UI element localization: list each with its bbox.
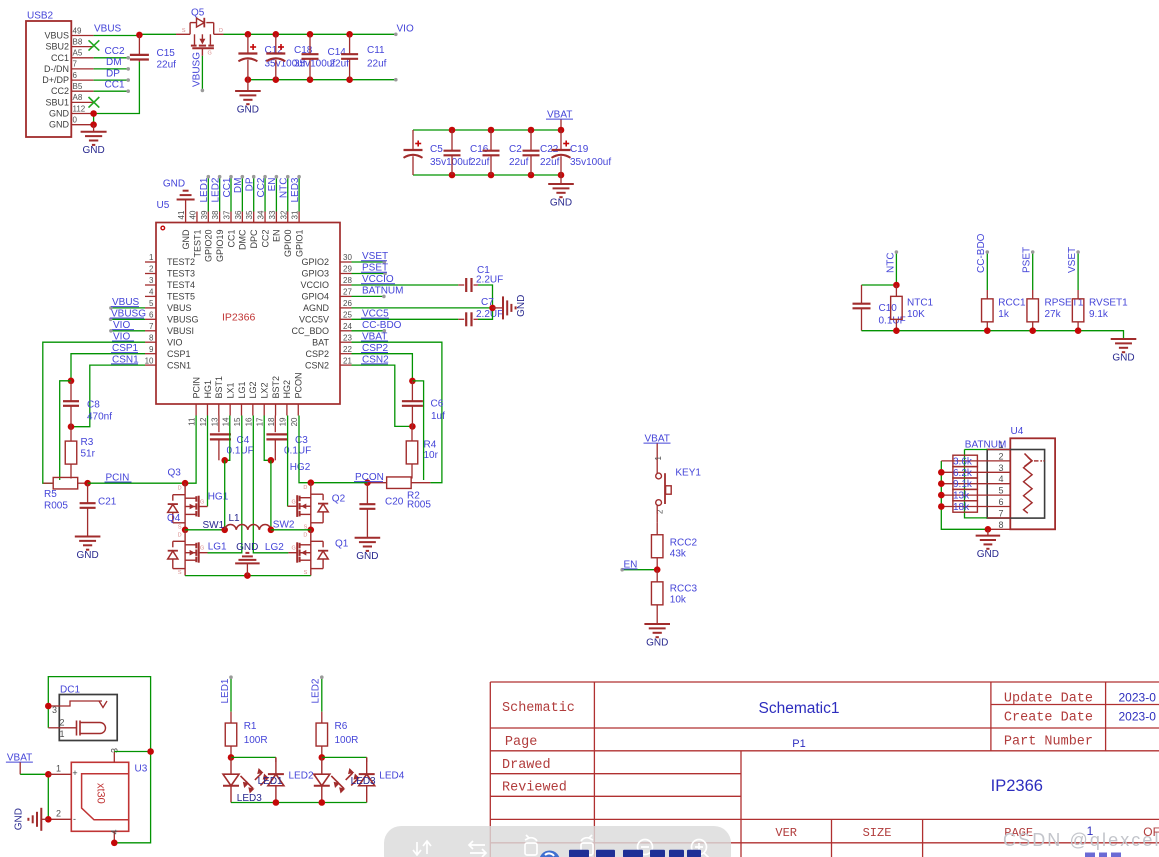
svg-text:R4: R4 bbox=[424, 440, 437, 451]
svg-text:21: 21 bbox=[343, 356, 352, 365]
svg-text:CC1: CC1 bbox=[105, 80, 125, 91]
svg-text:1: 1 bbox=[654, 456, 663, 461]
junction pin0 bbox=[90, 121, 97, 128]
connector U4 bbox=[987, 426, 1055, 529]
wire PCIN to Q3 drain bbox=[88, 482, 186, 484]
wire CC-BDO net bbox=[986, 252, 988, 290]
svg-text:RVSET1: RVSET1 bbox=[1089, 298, 1128, 309]
ground GND below C19 bbox=[548, 175, 574, 209]
svg-text:22uf: 22uf bbox=[509, 157, 529, 168]
svg-text:U3: U3 bbox=[135, 764, 148, 775]
capacitor C21 bbox=[87, 483, 89, 503]
wire LX2 pin17 to C3 bottom junction bbox=[264, 416, 271, 461]
svg-text:VBUS: VBUS bbox=[44, 31, 69, 41]
resistor 18k bbox=[941, 506, 1010, 508]
junction NTC/C10 bbox=[893, 282, 900, 289]
svg-text:SW2: SW2 bbox=[273, 519, 295, 530]
wire bridge source rail bbox=[185, 575, 311, 577]
svg-text:A5: A5 bbox=[73, 49, 83, 58]
wire net EN at IC top pin 33 bbox=[275, 177, 277, 212]
svg-text:24: 24 bbox=[343, 322, 352, 331]
svg-text:2: 2 bbox=[149, 265, 154, 274]
wire CSP2 from pin22 to C6 top bbox=[352, 354, 413, 381]
svg-text:KEY1: KEY1 bbox=[675, 468, 701, 479]
resistor 6.2k bbox=[941, 471, 1010, 473]
svg-text:GND: GND bbox=[181, 229, 191, 250]
junction VBUS/C15 bbox=[136, 32, 143, 39]
svg-text:R6: R6 bbox=[335, 721, 348, 732]
resistor NTC1 bbox=[895, 285, 897, 296]
svg-text:BATNUM: BATNUM bbox=[965, 440, 1006, 451]
svg-text:12: 12 bbox=[199, 417, 208, 426]
svg-text:CC-BDO: CC-BDO bbox=[976, 233, 987, 273]
junction ground tap bbox=[244, 572, 251, 579]
svg-text:19: 19 bbox=[278, 417, 287, 426]
wire VSET net bbox=[1077, 252, 1079, 290]
svg-text:GND: GND bbox=[237, 105, 259, 116]
svg-text:G: G bbox=[208, 51, 212, 57]
svg-text:LG2: LG2 bbox=[248, 381, 258, 398]
svg-text:7: 7 bbox=[149, 322, 154, 331]
wire C21 to ground bbox=[87, 520, 89, 537]
wire LX1 pin14 to C4 bottom junction bbox=[225, 416, 230, 461]
svg-text:GND: GND bbox=[1112, 353, 1134, 364]
capacitor C2 bbox=[490, 130, 492, 151]
svg-text:CC_BDO: CC_BDO bbox=[291, 326, 329, 336]
svg-text:DP: DP bbox=[106, 68, 120, 79]
wire PSET net bbox=[1032, 252, 1034, 290]
svg-text:13k: 13k bbox=[953, 491, 970, 502]
IC bottom pins 11-20 bbox=[188, 372, 304, 426]
svg-text:43k: 43k bbox=[670, 549, 687, 560]
capacitor C10 bbox=[861, 285, 863, 304]
wire HG2 pin19 to Q2 gate bbox=[287, 416, 289, 507]
svg-text:Q4: Q4 bbox=[167, 513, 181, 524]
capacitor C16 bbox=[451, 130, 453, 151]
capacitor C3 bbox=[266, 434, 311, 460]
resistor RCC2 bbox=[656, 523, 658, 535]
junction top rail x=247.9 bbox=[245, 31, 252, 38]
svg-text:Create Date: Create Date bbox=[1004, 711, 1093, 726]
svg-text:G: G bbox=[292, 546, 296, 552]
svg-text:GND: GND bbox=[236, 542, 258, 553]
svg-text:Q1: Q1 bbox=[335, 538, 349, 549]
svg-text:D+/DP: D+/DP bbox=[42, 75, 69, 85]
svg-text:VCC5V: VCC5V bbox=[299, 315, 329, 325]
svg-text:10r: 10r bbox=[424, 450, 439, 461]
svg-text:LG1: LG1 bbox=[237, 381, 247, 398]
svg-text:2: 2 bbox=[59, 718, 64, 728]
svg-text:CC2: CC2 bbox=[105, 46, 125, 57]
svg-text:C10: C10 bbox=[879, 303, 898, 314]
svg-text:13: 13 bbox=[210, 417, 219, 426]
rheostat symbol inside U4 bbox=[1024, 454, 1045, 514]
junction divider x=941 row 3 bbox=[938, 469, 945, 476]
svg-text:L1: L1 bbox=[229, 513, 241, 524]
svg-text:U5: U5 bbox=[157, 200, 170, 211]
svg-text:6: 6 bbox=[998, 497, 1003, 507]
svg-text:R005: R005 bbox=[407, 500, 431, 511]
wire top rail cap bank 2 bbox=[413, 129, 561, 131]
wire VBAT from pin23 to R2 bbox=[352, 342, 442, 483]
junction bottom rail x=310.0 bbox=[307, 76, 314, 83]
svg-text:GND: GND bbox=[82, 145, 104, 156]
junction SW1 bbox=[221, 527, 228, 534]
svg-text:DMC: DMC bbox=[238, 229, 248, 250]
junction SW2/Q1 drain bbox=[308, 527, 315, 534]
junction U3 pin1 bbox=[45, 771, 52, 778]
wire C6 top to R2 box bbox=[412, 381, 423, 480]
resistor R6 bbox=[321, 712, 323, 723]
svg-text:DP: DP bbox=[245, 177, 256, 191]
svg-text:GPIO0: GPIO0 bbox=[283, 230, 293, 258]
resistor 3.6k bbox=[941, 460, 1010, 462]
svg-text:BATNUM: BATNUM bbox=[362, 286, 403, 297]
svg-text:GND: GND bbox=[356, 551, 378, 562]
svg-text:DM: DM bbox=[106, 57, 122, 68]
wire VBAT to U3 pin1 bbox=[20, 773, 48, 775]
ground GND below USB2 bbox=[81, 125, 107, 157]
logo circle bbox=[539, 851, 560, 857]
svg-text:C2: C2 bbox=[509, 144, 522, 155]
resistor 13k bbox=[941, 494, 1010, 496]
junction divider x=941 row 5 bbox=[938, 492, 945, 499]
wire CSP1 from pin9 to C8 top bbox=[71, 354, 145, 381]
svg-text:GPIO20: GPIO20 bbox=[204, 230, 214, 263]
wire net CC2 at IC top pin 34 bbox=[264, 177, 266, 212]
svg-text:2.2UF: 2.2UF bbox=[476, 309, 503, 320]
capacitor C8 bbox=[70, 381, 72, 401]
svg-text:C8: C8 bbox=[87, 400, 100, 411]
wire LG1 pin15 to Q4 gate bbox=[208, 416, 242, 553]
LED (pair2 down) bbox=[314, 757, 345, 802]
junction R1 bottom bbox=[228, 754, 235, 761]
wire BATNUM loop to pin7 bbox=[965, 450, 988, 518]
svg-text:BST1: BST1 bbox=[214, 376, 224, 399]
svg-text:3: 3 bbox=[149, 276, 154, 285]
svg-text:22uf: 22uf bbox=[470, 157, 490, 168]
svg-text:D: D bbox=[178, 532, 182, 538]
svg-text:6.2k: 6.2k bbox=[953, 468, 973, 479]
svg-text:LED3: LED3 bbox=[351, 776, 376, 787]
capacitor C20 bbox=[366, 483, 368, 505]
wire CC2 net bbox=[94, 57, 129, 59]
svg-text:USB2: USB2 bbox=[27, 11, 54, 22]
resistor R3 bbox=[70, 427, 72, 441]
logo bold text bbox=[569, 850, 701, 857]
svg-text:32: 32 bbox=[279, 210, 288, 219]
faint blue text bottom bbox=[1085, 853, 1121, 857]
svg-text:VBUSG: VBUSG bbox=[192, 52, 203, 87]
svg-text:49: 49 bbox=[73, 26, 82, 35]
wire net NTC at IC top pin 32 bbox=[287, 177, 289, 212]
svg-text:22uf: 22uf bbox=[157, 60, 177, 71]
svg-text:Page: Page bbox=[505, 735, 537, 750]
svg-text:35v100uf: 35v100uf bbox=[570, 157, 611, 168]
junction U3 pin4 rail bbox=[111, 840, 118, 847]
ground GND below RCC3 bbox=[644, 617, 670, 649]
wire LX2 down to SW2 bbox=[270, 460, 272, 530]
capacitor C18 bbox=[275, 34, 277, 53]
svg-text:36: 36 bbox=[234, 210, 243, 219]
svg-text:6: 6 bbox=[149, 311, 154, 320]
wire VBUS at pin5 bbox=[111, 307, 145, 309]
wire VCC5 from pin25 to C7 bbox=[352, 318, 459, 320]
switch KEY1 bbox=[654, 456, 702, 515]
svg-text:C19: C19 bbox=[570, 144, 589, 155]
svg-text:NTC1: NTC1 bbox=[907, 298, 934, 309]
svg-text:VBUSG: VBUSG bbox=[167, 315, 199, 325]
svg-text:B8: B8 bbox=[73, 37, 83, 46]
junction bank2 top x=561 bbox=[558, 127, 565, 134]
svg-text:PCON: PCON bbox=[294, 372, 304, 398]
junction LED rail 2 bbox=[319, 799, 326, 806]
capacitor C12 bbox=[247, 34, 249, 53]
svg-text:CC2: CC2 bbox=[51, 86, 69, 96]
wire LED bottom rail bbox=[231, 802, 367, 804]
svg-text:NTC: NTC bbox=[885, 252, 896, 273]
svg-text:26: 26 bbox=[343, 299, 352, 308]
svg-text:CSN2: CSN2 bbox=[305, 360, 329, 370]
svg-text:SBU2: SBU2 bbox=[45, 42, 69, 52]
svg-text:xt30: xt30 bbox=[95, 783, 107, 804]
transistor Q1 bbox=[288, 530, 328, 576]
wire net DM at IC top pin 36 bbox=[241, 177, 243, 212]
junction bank rail x=1078.1 bbox=[1075, 327, 1082, 334]
svg-text:Q5: Q5 bbox=[191, 8, 205, 19]
junction C3/LX2 bbox=[268, 457, 275, 464]
transistor Q3 bbox=[168, 483, 208, 530]
svg-text:C11: C11 bbox=[367, 45, 385, 56]
wire CSN1 from pin10 to C8 bottom bbox=[71, 365, 145, 427]
junction SW1/Q3 source bbox=[182, 527, 189, 534]
svg-text:C6: C6 bbox=[431, 399, 444, 410]
svg-text:17: 17 bbox=[256, 417, 265, 426]
svg-text:CC2: CC2 bbox=[260, 230, 270, 248]
svg-text:10k: 10k bbox=[670, 595, 687, 606]
svg-text:LX2: LX2 bbox=[260, 382, 270, 398]
svg-text:CSDN @qlexcel: CSDN @qlexcel bbox=[1003, 830, 1159, 850]
svg-text:HG1: HG1 bbox=[208, 492, 229, 503]
wire C20 to ground bbox=[366, 520, 368, 538]
capacitor C15 bbox=[138, 35, 140, 55]
LED LED3b bbox=[346, 757, 375, 802]
svg-text:3: 3 bbox=[998, 463, 1003, 473]
svg-text:HG1: HG1 bbox=[203, 380, 213, 399]
transistor Q4 bbox=[168, 530, 208, 576]
IC right pins 30-21 bbox=[291, 253, 352, 370]
ground GND at IC pin41 bbox=[177, 191, 195, 212]
svg-text:BST2: BST2 bbox=[271, 376, 281, 399]
svg-text:35: 35 bbox=[245, 210, 254, 219]
wire SW2 segment bbox=[271, 529, 311, 531]
svg-text:16: 16 bbox=[244, 417, 253, 426]
svg-text:Q2: Q2 bbox=[332, 494, 346, 505]
svg-text:C5: C5 bbox=[430, 144, 443, 155]
wire LED pair top link bbox=[322, 756, 367, 758]
svg-text:CC2: CC2 bbox=[256, 177, 267, 197]
svg-text:TEST2: TEST2 bbox=[167, 257, 195, 267]
svg-text:LED3: LED3 bbox=[290, 177, 301, 202]
wire U3 pin3 to loop bbox=[114, 751, 150, 753]
wire EN net bbox=[622, 569, 657, 571]
svg-text:CSP2: CSP2 bbox=[305, 349, 329, 359]
svg-text:VBUSI: VBUSI bbox=[167, 326, 194, 336]
svg-text:VSET: VSET bbox=[1067, 247, 1078, 273]
wire input loop around DC1/U3 bbox=[48, 677, 150, 843]
svg-text:R1: R1 bbox=[244, 721, 257, 732]
svg-text:R5: R5 bbox=[44, 489, 57, 500]
junction C8 top bbox=[68, 378, 75, 385]
svg-text:PSET: PSET bbox=[1022, 247, 1033, 273]
LED LED1 bbox=[255, 757, 284, 802]
junction EN bbox=[654, 566, 661, 573]
svg-text:22uf: 22uf bbox=[367, 59, 387, 70]
svg-text:2.2UF: 2.2UF bbox=[476, 275, 503, 286]
svg-text:18k: 18k bbox=[953, 502, 970, 513]
junction divider x=941 row 6 bbox=[938, 503, 945, 510]
svg-text:GPIO1: GPIO1 bbox=[294, 230, 304, 258]
svg-text:3: 3 bbox=[110, 748, 120, 753]
resistor R1 bbox=[230, 712, 232, 723]
svg-text:LG1: LG1 bbox=[208, 542, 227, 553]
svg-text:37: 37 bbox=[223, 210, 232, 219]
svg-text:GND: GND bbox=[977, 549, 999, 560]
svg-text:GPIO19: GPIO19 bbox=[215, 230, 225, 263]
svg-text:38: 38 bbox=[211, 210, 220, 219]
svg-text:LED2: LED2 bbox=[289, 770, 314, 781]
svg-text:1: 1 bbox=[149, 253, 154, 262]
svg-text:VBUS: VBUS bbox=[167, 303, 192, 313]
junction Q2 drain bbox=[308, 479, 315, 486]
junction GND tap bbox=[245, 76, 252, 83]
svg-text:AGND: AGND bbox=[303, 303, 330, 313]
svg-text:Update Date: Update Date bbox=[1004, 692, 1093, 707]
wire net LED2 at IC top pin 38 bbox=[219, 177, 221, 212]
svg-text:25: 25 bbox=[343, 311, 352, 320]
svg-text:35v100uf: 35v100uf bbox=[430, 157, 471, 168]
svg-text:HG2: HG2 bbox=[290, 462, 311, 473]
resistor R5 shunt bbox=[43, 482, 53, 484]
svg-text:C4: C4 bbox=[237, 435, 250, 446]
title block texts bbox=[502, 691, 1159, 841]
wire VSET at pin30 bbox=[352, 261, 385, 263]
wire BST2 pin18 to C3 bbox=[274, 416, 276, 433]
svg-text:Q3: Q3 bbox=[168, 467, 182, 478]
capacitor C7 bbox=[458, 297, 503, 326]
svg-text:100R: 100R bbox=[244, 735, 268, 746]
svg-text:S: S bbox=[178, 570, 182, 576]
IC top pins 41-31 bbox=[177, 210, 304, 262]
svg-text:SIZE: SIZE bbox=[863, 826, 892, 840]
IC left pins 1-10 bbox=[145, 253, 199, 370]
svg-text:4: 4 bbox=[998, 474, 1003, 484]
junction Q3 drain bbox=[182, 480, 189, 487]
svg-text:41: 41 bbox=[177, 210, 186, 219]
capacitor C5 bbox=[412, 130, 414, 150]
junction DC1 pin3 bbox=[45, 703, 52, 710]
svg-text:LX1: LX1 bbox=[225, 382, 235, 398]
wire CC1 net bbox=[94, 90, 129, 92]
svg-text:TEST5: TEST5 bbox=[167, 292, 195, 302]
junction R6 bottom bbox=[319, 754, 326, 761]
svg-text:D: D bbox=[219, 28, 223, 34]
junction bank2 bottom x=561 bbox=[558, 172, 565, 179]
svg-text:0.1UF: 0.1UF bbox=[227, 446, 254, 457]
wire BATNUM at pin27 bbox=[352, 295, 384, 297]
svg-text:27k: 27k bbox=[1045, 309, 1062, 320]
junction U3 pin2 gnd bbox=[45, 816, 52, 823]
wire VCCIO from pin28 to C1 bbox=[352, 284, 459, 286]
svg-text:RCC2: RCC2 bbox=[670, 538, 698, 549]
capacitor C19 bbox=[560, 130, 562, 150]
svg-text:D: D bbox=[178, 486, 182, 492]
svg-text:GND: GND bbox=[49, 109, 70, 119]
svg-text:15: 15 bbox=[233, 417, 242, 426]
wire C7 right to ground junction bbox=[478, 308, 493, 319]
ground GND below C12 bbox=[235, 80, 261, 116]
ground GND below C20 bbox=[355, 538, 381, 563]
svg-text:VBUS: VBUS bbox=[94, 24, 122, 35]
junction PCON bbox=[364, 479, 371, 486]
svg-text:23: 23 bbox=[343, 333, 352, 342]
ground GND below U4 bbox=[976, 529, 1001, 560]
svg-text:1: 1 bbox=[59, 729, 64, 739]
junction top rail x=275.8 bbox=[273, 31, 280, 38]
svg-text:GND: GND bbox=[49, 120, 70, 130]
junction U3 pin3 loop bbox=[147, 748, 154, 755]
svg-text:C3: C3 bbox=[295, 435, 308, 446]
svg-text:2023-0: 2023-0 bbox=[1119, 710, 1157, 724]
junction bottom rail x=349.6 bbox=[346, 76, 353, 83]
svg-text:29: 29 bbox=[343, 265, 352, 274]
svg-text:C16: C16 bbox=[470, 144, 489, 155]
svg-text:0: 0 bbox=[73, 116, 78, 125]
wire net LED1 bbox=[230, 677, 232, 712]
junction bank2 bottom x=452 bbox=[449, 172, 456, 179]
svg-text:B5: B5 bbox=[73, 82, 83, 91]
svg-text:EN: EN bbox=[267, 178, 278, 192]
wire DP net bbox=[94, 79, 129, 81]
wire VBUSG from Q5 gate bbox=[201, 56, 203, 91]
svg-text:GPIO2: GPIO2 bbox=[301, 257, 329, 267]
svg-text:LED2: LED2 bbox=[210, 177, 221, 202]
svg-text:GND: GND bbox=[163, 179, 185, 190]
no-connect X on pin A8 bbox=[89, 97, 100, 108]
wire BATNUM to U4 pin1 bbox=[965, 449, 988, 451]
wire C10 link bbox=[862, 284, 897, 286]
wire LX1 down to SW1 bbox=[224, 460, 226, 530]
svg-text:1uf: 1uf bbox=[431, 411, 445, 422]
svg-text:Schematic1: Schematic1 bbox=[759, 700, 840, 717]
connector DC1 bbox=[48, 685, 117, 741]
svg-text:Schematic: Schematic bbox=[502, 701, 575, 716]
wire net DP at IC top pin 35 bbox=[253, 177, 255, 212]
svg-text:LED1: LED1 bbox=[220, 678, 231, 703]
svg-text:GND: GND bbox=[516, 295, 527, 317]
svg-text:C21: C21 bbox=[98, 497, 117, 508]
LED LED3 bbox=[223, 757, 254, 802]
junction bank2 bottom x=531 bbox=[528, 172, 535, 179]
junction AGND/C1/C7 bbox=[489, 305, 496, 312]
junction C4/LX1 bbox=[221, 457, 228, 464]
svg-text:20: 20 bbox=[290, 417, 299, 426]
U4 pin numbers bbox=[998, 440, 1003, 530]
wire HG1 pin12 to Q3 gate bbox=[207, 416, 209, 507]
wire net CC1 at IC top pin 37 bbox=[230, 177, 232, 212]
svg-text:GND: GND bbox=[13, 808, 24, 830]
junction bank2 top x=531 bbox=[528, 127, 535, 134]
